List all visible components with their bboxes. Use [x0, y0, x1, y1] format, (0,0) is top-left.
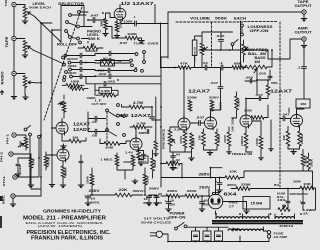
- svg-text:2200Ω: 2200Ω: [301, 134, 304, 144]
- cap .047 rt: [259, 97, 260, 101]
- eq cap .002d: [109, 74, 111, 79]
- resistor 1000: [131, 155, 135, 166]
- svg-text:RADIO: RADIO: [1, 71, 5, 85]
- wire: [268, 39, 304, 59]
- wire: [211, 168, 223, 178]
- wire: [92, 168, 145, 195]
- bottom wire: [168, 227, 240, 241]
- resistor 1M v5: [286, 131, 290, 146]
- treble pot box: [296, 99, 310, 108]
- fuse: [267, 231, 270, 234]
- svg-text:350: 350: [169, 204, 176, 207]
- plate coupling cap: [135, 21, 137, 26]
- wire: [161, 189, 209, 196]
- ground: [60, 183, 66, 185]
- wire: [122, 105, 153, 121]
- small box: [139, 156, 148, 163]
- wiper arrow: [28, 12, 35, 16]
- eq cap .001: [109, 51, 111, 56]
- svg-text:3300: 3300: [167, 189, 177, 193]
- ground: [259, 156, 264, 158]
- ps cap +: [217, 183, 222, 185]
- resistor 10K b: [300, 186, 314, 190]
- power switch: [175, 227, 178, 230]
- wire: [14, 39, 25, 72]
- wire: [62, 56, 95, 89]
- wire: [46, 152, 63, 170]
- switch gang dashed: [106, 112, 108, 146]
- selector frame: [61, 6, 84, 44]
- loudness net top wire: [199, 49, 268, 51]
- svg-text:1/2 AMP.: 1/2 AMP.: [274, 235, 288, 239]
- svg-text:VOLUME: VOLUME: [190, 17, 211, 21]
- svg-text:+: +: [165, 199, 167, 203]
- svg-text:33K: 33K: [170, 166, 179, 170]
- plate resistor 4.7M a: [129, 105, 144, 109]
- ps cap 10/350V: [86, 196, 91, 198]
- eq resistor 180K: [66, 84, 80, 88]
- svg-text:200V: 200V: [209, 96, 219, 100]
- wire: [155, 97, 157, 141]
- wire: [33, 50, 64, 64]
- svg-text:TAPE: TAPE: [5, 37, 9, 48]
- selector contact 8: [79, 41, 82, 44]
- ground: [189, 156, 195, 158]
- svg-text:OVER: OVER: [148, 42, 160, 46]
- ground: [301, 17, 307, 19]
- wire: [228, 127, 230, 150]
- wire: [95, 54, 144, 61]
- svg-text:4.7M: 4.7M: [133, 101, 143, 105]
- svg-text:10K: 10K: [303, 182, 312, 186]
- wire: [280, 118, 291, 120]
- svg-text:1M: 1M: [100, 20, 104, 27]
- rolloff contact r3: [69, 68, 72, 71]
- svg-text:10K: 10K: [229, 169, 238, 173]
- grid resistor 10M: [104, 142, 120, 146]
- level pot R1 500K: [23, 7, 27, 19]
- svg-text:MODEL 211 - PREAMPLIFIER: MODEL 211 - PREAMPLIFIER: [23, 216, 106, 222]
- ground: [301, 44, 307, 46]
- feedback cap 68PF: [147, 130, 148, 134]
- selector contact 4: [77, 25, 80, 28]
- svg-text:470K: 470K: [47, 156, 51, 165]
- wire: [13, 189, 41, 202]
- level pot R2: [23, 41, 27, 53]
- svg-text:PH-2: PH-2: [0, 151, 4, 162]
- svg-text:68PF: 68PF: [139, 131, 149, 135]
- cathode resistor 3300: [115, 22, 119, 32]
- svg-text:CUT OFF: CUT OFF: [92, 102, 107, 106]
- ground: [49, 183, 55, 185]
- wire: [14, 5, 25, 37]
- svg-text:330K: 330K: [238, 99, 241, 107]
- ground: [85, 201, 91, 203]
- wire: [220, 68, 222, 87]
- selector contact 9: [62, 56, 65, 59]
- svg-text:12AD7: 12AD7: [73, 127, 91, 132]
- ground: [22, 19, 28, 21]
- ps cap 20/450: [154, 196, 159, 198]
- svg-text:OFF-ON: OFF-ON: [169, 216, 187, 220]
- HV winding 2: [275, 217, 294, 219]
- selector gang (dashed): [44, 7, 82, 120]
- resistor 47K b: [29, 157, 33, 168]
- svg-text:FRANKLIN PARK, ILLINOIS: FRANKLIN PARK, ILLINOIS: [31, 235, 103, 241]
- bass pot 1M: [245, 65, 267, 69]
- svg-text:.02: .02: [117, 59, 123, 63]
- eq cap .05b: [109, 58, 111, 63]
- svg-text:12AX7: 12AX7: [188, 89, 211, 94]
- cap .0033: [16, 164, 20, 165]
- input jack J2 (tape): [12, 36, 16, 40]
- resistor 160K: [143, 174, 147, 185]
- svg-text:180K: 180K: [71, 80, 80, 84]
- resistor 2200 v5: [298, 131, 302, 146]
- coupling cap .047: [93, 18, 95, 23]
- resistor 6800 rt: [190, 133, 194, 149]
- svg-text:EACH: EACH: [234, 17, 246, 21]
- core: [212, 221, 303, 223]
- wire: [100, 120, 161, 144]
- wire: [13, 154, 31, 183]
- level pot R3: [23, 76, 27, 88]
- resistor 3300 b: [185, 194, 199, 198]
- selector contact 10: [63, 63, 66, 66]
- selector contact 1: [69, 14, 72, 17]
- svg-text:500K: 500K: [215, 17, 228, 21]
- ground: [132, 179, 138, 181]
- svg-text:CA: CA: [141, 157, 147, 160]
- coupling cap .08 b: [95, 129, 97, 134]
- resistor 68K: [232, 66, 244, 70]
- wire: [232, 92, 237, 118]
- svg-text:22K: 22K: [119, 188, 129, 192]
- eq cap .062: [104, 82, 106, 87]
- bus wire: [51, 30, 53, 181]
- line bypass cap 3: [215, 231, 223, 241]
- svg-text:.0033: .0033: [67, 64, 78, 68]
- resistor 330K: [235, 96, 239, 110]
- wire: [51, 181, 53, 183]
- wire: [241, 50, 273, 67]
- resistor 1M v4: [202, 132, 206, 146]
- junction dots: [40, 22, 42, 24]
- pot 47K a: [24, 137, 28, 148]
- channel divider (dashed): [279, 22, 281, 187]
- wire: [14, 76, 25, 95]
- svg-text:.00033: .00033: [85, 49, 99, 53]
- wire: [88, 13, 115, 20]
- wire: [52, 95, 64, 128]
- volume gang (dashed): [176, 22, 244, 67]
- svg-text:1M: 1M: [247, 152, 253, 156]
- cap .047 d: [218, 87, 223, 89]
- wire: [106, 20, 118, 31]
- wire: [201, 55, 203, 68]
- eq cap .0033: [80, 60, 82, 64]
- grid resistor 1MEG: [115, 155, 119, 166]
- svg-text:PH-1: PH-1: [6, 133, 10, 144]
- resistor 465K: [151, 158, 155, 171]
- rolloff contact r6: [135, 53, 138, 56]
- pot 470K: [62, 101, 66, 112]
- heater winding (left): [216, 217, 243, 219]
- wiper arrow: [28, 46, 34, 50]
- fcap a: [166, 202, 171, 204]
- svg-text:300V/4: 300V/4: [133, 189, 146, 193]
- volume pot (left ch): [200, 43, 204, 55]
- input jack J7 (MIC): [11, 194, 15, 198]
- wire: [220, 171, 313, 188]
- rolloff contact r7: [130, 59, 133, 62]
- wire: [107, 27, 142, 39]
- loudness control pot (boxed): [192, 40, 197, 56]
- svg-text:XTAL: XTAL: [2, 175, 6, 186]
- svg-text:1.4V: 1.4V: [125, 151, 133, 155]
- wire: [161, 67, 247, 69]
- svg-text:465K: 465K: [154, 160, 157, 168]
- loudness switch: [231, 43, 234, 46]
- ground: [114, 34, 120, 36]
- svg-text:6800: 6800: [193, 137, 196, 146]
- wire: [246, 47, 304, 115]
- svg-text:.062: .062: [107, 80, 116, 84]
- svg-text:47K: 47K: [180, 61, 189, 65]
- svg-text:.047: .047: [210, 81, 218, 85]
- wire: [288, 127, 300, 150]
- svg-text:1M: 1M: [198, 136, 202, 141]
- selector contact 7: [77, 37, 80, 40]
- svg-text:2.2K: 2.2K: [174, 128, 182, 132]
- svg-text:282K: 282K: [311, 159, 314, 167]
- svg-text:4.7M: 4.7M: [137, 121, 147, 125]
- tube V5b: [291, 115, 303, 127]
- svg-text:8V.: 8V.: [274, 183, 280, 187]
- ground: [139, 39, 145, 41]
- loudness tap cap .045: [218, 39, 224, 41]
- plate res 200V: [210, 100, 214, 111]
- presence pot: [168, 130, 172, 146]
- wire: [34, 16, 61, 42]
- svg-text:PRESENCE: PRESENCE: [163, 128, 166, 149]
- wiper arrow: [28, 81, 36, 84]
- wire: [152, 150, 154, 178]
- wire: [216, 202, 247, 215]
- svg-text:3300: 3300: [187, 189, 197, 193]
- svg-text:56K: 56K: [271, 81, 278, 85]
- resistor 1000 rt2: [227, 132, 231, 146]
- resistor 470K: [44, 156, 48, 167]
- tube V3 (follower): [57, 149, 69, 161]
- resistor 282K: [307, 157, 311, 169]
- rolloff contact r5: [63, 76, 66, 79]
- ground: [166, 207, 172, 209]
- input jack J3 (radio): [12, 71, 16, 75]
- selector contact 11: [65, 71, 68, 74]
- wire: [41, 23, 60, 30]
- selector contact 6: [69, 36, 72, 39]
- cathode res 6800: [61, 166, 65, 178]
- svg-text:296V: 296V: [149, 187, 159, 191]
- resistor small: [154, 141, 158, 150]
- wire: [288, 108, 290, 113]
- input jack J4 (PH-1): [12, 133, 16, 137]
- selector contact 12: [63, 79, 66, 82]
- wire: [170, 127, 217, 156]
- svg-text:.0022: .0022: [19, 164, 22, 174]
- svg-text:10M: 10M: [105, 145, 114, 149]
- ground: [10, 202, 16, 204]
- tape output jack J8: [302, 10, 306, 14]
- svg-text:3.3M: 3.3M: [101, 89, 111, 93]
- resistor 22K: [115, 193, 132, 197]
- caps bottom v4: [171, 156, 176, 157]
- eq resistor bottom: [101, 93, 116, 97]
- wire: [17, 136, 39, 187]
- wire: [246, 127, 252, 152]
- amp output jack J9: [302, 37, 306, 41]
- eq resistor 1M card (boxed): [101, 60, 115, 66]
- svg-text:100K: 100K: [220, 102, 223, 110]
- svg-text:280V: 280V: [89, 189, 101, 193]
- wire: [78, 42, 103, 49]
- wire: [161, 164, 182, 179]
- ground: [217, 188, 223, 190]
- svg-text:12AX7: 12AX7: [270, 89, 293, 94]
- ground: [199, 207, 205, 209]
- resistor 3300 a: [166, 194, 180, 198]
- resistor 228K: [236, 187, 250, 191]
- svg-text:160K: 160K: [244, 109, 252, 113]
- loudness switch contacts: [241, 24, 244, 27]
- wire: [241, 21, 243, 62]
- wire: [95, 70, 134, 71]
- svg-text:6800: 6800: [64, 167, 68, 177]
- svg-text:1000: 1000: [123, 160, 132, 164]
- HV winding: [243, 217, 270, 219]
- rectifier tube V6 6X4: [208, 194, 223, 209]
- svg-text:(AK2-W. 1950EMS): (AK2-W. 1950EMS): [38, 224, 83, 228]
- frame wire: [168, 12, 291, 58]
- selector contact 2: [78, 11, 81, 14]
- resistor 100K left: [90, 174, 94, 185]
- svg-text:160K: 160K: [146, 176, 150, 184]
- line bypass cap 1: [192, 231, 200, 241]
- input jack J1 (tuner): [12, 2, 16, 6]
- wire: [27, 126, 31, 129]
- eq resistor b: [70, 87, 84, 91]
- ground: [146, 201, 152, 203]
- selector contact 5: [65, 30, 68, 33]
- resistor 1000 v4a: [183, 131, 187, 148]
- svg-text:220K: 220K: [187, 96, 198, 100]
- line bypass cap 2: [203, 231, 211, 241]
- svg-text:.047: .047: [255, 93, 264, 97]
- tube V5a: [240, 115, 252, 127]
- fcap b: [200, 202, 205, 204]
- lf switch contacts: [106, 109, 109, 112]
- wire: [170, 152, 173, 166]
- svg-text:TH: TH: [141, 161, 147, 163]
- scan artifact: [0, 196, 3, 201]
- wire: [161, 57, 168, 187]
- contact: [29, 133, 32, 136]
- svg-text:68K: 68K: [234, 61, 243, 65]
- wire: [117, 153, 133, 179]
- tube V4b: [205, 117, 217, 129]
- cap .1: [221, 65, 223, 70]
- svg-text:600Ω: 600Ω: [305, 156, 308, 164]
- svg-text:TURN: TURN: [134, 42, 145, 46]
- svg-text:.047: .047: [282, 113, 291, 117]
- wire: [220, 42, 222, 50]
- svg-text:2A.: 2A.: [303, 212, 309, 216]
- wire: [71, 12, 92, 39]
- svg-text:.00047: .00047: [66, 57, 79, 61]
- svg-text:1M: 1M: [282, 136, 286, 141]
- lf switch contacts2: [106, 129, 109, 132]
- svg-text:100K: 100K: [256, 138, 259, 146]
- switch levers: [108, 111, 123, 136]
- wire: [86, 77, 161, 84]
- svg-text:CT: CT: [229, 205, 234, 209]
- input jack J6 (XTAL): [13, 175, 17, 179]
- svg-text:GROMMES HI-FIDELITY: GROMMES HI-FIDELITY: [43, 208, 102, 214]
- plate res 220K: [188, 100, 192, 111]
- svg-text:OUTPUT: OUTPUT: [295, 4, 312, 8]
- tube V4a: [178, 118, 190, 130]
- cap .01: [205, 65, 207, 70]
- wire: [252, 120, 271, 156]
- tube V2a: [56, 122, 68, 134]
- svg-text:15 MA: 15 MA: [251, 202, 264, 206]
- svg-text:100K: 100K: [86, 176, 90, 184]
- resistor 33K: [166, 162, 180, 166]
- svg-text:.01: .01: [202, 61, 208, 65]
- ps cap 16/350 b: [147, 196, 152, 198]
- svg-text:12AX7: 12AX7: [73, 121, 91, 126]
- eq cap .005c: [108, 68, 110, 73]
- svg-text:100V: 100V: [124, 19, 133, 23]
- svg-text:293V: 293V: [199, 185, 211, 189]
- grid resistor 1M: [104, 19, 108, 30]
- bottom rail: [90, 184, 157, 198]
- wire: [231, 188, 316, 210]
- svg-text:+: +: [300, 199, 302, 203]
- wire: [95, 62, 131, 65]
- svg-text:.1: .1: [219, 61, 224, 65]
- svg-text:47K: 47K: [32, 158, 36, 165]
- svg-text:TUN: TUN: [4, 0, 8, 7]
- wire: [240, 231, 269, 242]
- wire: [95, 60, 130, 62]
- cap .005 b: [250, 79, 251, 83]
- resistor 1000 v4b: [215, 132, 219, 146]
- resistor 600 v5: [301, 154, 305, 166]
- svg-text:1000: 1000: [180, 135, 183, 144]
- input jack J5 (PH-2): [9, 152, 13, 156]
- resistor 10K ps: [225, 176, 240, 180]
- tube V2b: [130, 138, 142, 150]
- svg-text:.005: .005: [258, 72, 267, 76]
- wire: [16, 135, 26, 150]
- svg-text:.005: .005: [245, 76, 254, 80]
- wire: [195, 36, 202, 68]
- svg-text:OUTPUT: OUTPUT: [295, 30, 312, 34]
- svg-text:500 K: 500 K: [88, 37, 101, 41]
- grid res 1M: [69, 139, 81, 143]
